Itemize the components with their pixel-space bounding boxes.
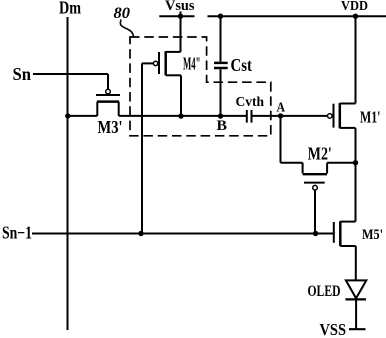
capacitor Cst bottom plate bbox=[214, 67, 228, 70]
wire M4 source down to node B bbox=[180, 75, 182, 116]
transistor M1 channel bar bbox=[339, 103, 342, 128]
svg-text:Dm: Dm bbox=[59, 0, 81, 18]
node junction dot M4gate-Sn1 bbox=[138, 231, 143, 236]
transistor M3 gate bar bbox=[96, 94, 120, 96]
transistor M1 bbox=[328, 103, 356, 128]
capacitor Cvth left plate bbox=[246, 110, 248, 123]
node junction dot Dm-M3 bbox=[65, 113, 70, 118]
wire Cst bottom bbox=[220, 69, 222, 116]
node junction dot Cst-B bbox=[218, 113, 223, 118]
wire M4 gate to Sn-1 bbox=[141, 63, 143, 233]
node junction dot M1-VDD bbox=[353, 14, 358, 19]
transistor M5 bbox=[334, 221, 356, 246]
wire M5 drain stub bbox=[340, 221, 355, 223]
capacitor Cvth right plate bbox=[251, 110, 253, 123]
svg-text:M5': M5' bbox=[362, 227, 383, 243]
wire node B line (M3 to Cvth) bbox=[119, 115, 247, 117]
transistor M4 channel bar bbox=[164, 51, 167, 75]
wire M2 right lead bbox=[327, 162, 355, 164]
wire Dm data line vertical bbox=[67, 17, 69, 330]
wire M5 source down to OLED bbox=[355, 246, 357, 280]
wire Vsus vertical feed to M4 bbox=[180, 12, 182, 52]
wire node A down to M2 bbox=[280, 116, 282, 163]
wire M3 right stub bbox=[118, 102, 120, 116]
transistor M4 gate circle bbox=[153, 61, 157, 65]
wire M1 source stub bbox=[340, 127, 356, 129]
wire VDD rail bbox=[208, 15, 386, 17]
svg-text:OLED: OLED bbox=[308, 283, 341, 300]
svg-text:80: 80 bbox=[114, 5, 131, 22]
wire M1 drain stub bbox=[340, 103, 356, 105]
svg-text:A: A bbox=[277, 100, 286, 115]
wire M4 drain stub bbox=[166, 51, 181, 53]
capacitor Cst top plate bbox=[214, 62, 228, 65]
wire M2 left stub bbox=[302, 163, 304, 174]
capacitor Cst bbox=[214, 16, 228, 116]
wire node A line (Cvth to M1 gate) bbox=[252, 115, 328, 117]
wire leader line from 80 to dashed box bbox=[120, 20, 133, 37]
wire M4 source stub bbox=[166, 74, 181, 76]
node junction dot Vsus bbox=[178, 14, 183, 19]
transistor M2 gate bar bbox=[304, 182, 325, 184]
transistor M2 bbox=[281, 163, 356, 190]
transistor M4 bbox=[142, 51, 181, 116]
node junction dot M2-trunk bbox=[353, 160, 358, 165]
wire Sn scan line bbox=[33, 73, 108, 75]
svg-text:M2': M2' bbox=[308, 144, 332, 164]
svg-text:Sn: Sn bbox=[13, 64, 32, 84]
wire node B line left segment (Dm to M3) bbox=[68, 115, 98, 117]
wire M3 left stub bbox=[96, 102, 98, 116]
svg-text:Cst: Cst bbox=[231, 55, 253, 75]
transistor M4 gate bar bbox=[158, 52, 160, 74]
transistor M5 gate bar bbox=[333, 222, 335, 243]
svg-text:M1': M1' bbox=[360, 108, 381, 127]
wire VDD down to M1 drain bbox=[355, 16, 357, 103]
wire M2 right stub bbox=[326, 163, 328, 174]
diode OLED triangle bbox=[346, 280, 366, 298]
wire OLED cathode to VSS bbox=[355, 299, 357, 329]
transistor M3 gate circle bbox=[106, 89, 111, 94]
node junction dot M2gate-Sn1 bbox=[313, 231, 318, 236]
wire trunk M1 source to M5 drain bbox=[355, 128, 357, 222]
svg-text:Sn−1: Sn−1 bbox=[2, 222, 32, 242]
wire M5 source stub bbox=[340, 245, 356, 247]
wire M2 gate to Sn-1 bbox=[314, 190, 316, 233]
transistor M5 channel bar bbox=[339, 221, 342, 246]
node junction dot Cst-VDD bbox=[218, 14, 223, 19]
svg-text:VDD: VDD bbox=[341, 0, 368, 13]
svg-text:B: B bbox=[217, 118, 228, 134]
transistor M2 channel bar bbox=[303, 173, 328, 175]
node junction dot A bbox=[278, 113, 283, 118]
svg-text:VSS: VSS bbox=[320, 320, 347, 338]
wire Vsus rail bbox=[159, 15, 194, 17]
svg-text:Cvth: Cvth bbox=[236, 94, 265, 109]
diode OLED cathode bar bbox=[345, 298, 366, 300]
wire M2 left lead bbox=[281, 162, 303, 164]
transistor M1 gate circle bbox=[328, 114, 333, 119]
wire Cst top bbox=[220, 16, 222, 61]
svg-text:M4": M4" bbox=[183, 54, 201, 74]
wire Sn corner down to M3 gate bbox=[107, 74, 109, 89]
diode OLED bbox=[345, 280, 366, 299]
dashed box 80 bbox=[130, 37, 271, 136]
transistor M3 bbox=[96, 89, 120, 116]
transistor M3 channel bar bbox=[97, 100, 119, 103]
svg-text:M3': M3' bbox=[98, 117, 123, 137]
node junction dot M4-B bbox=[178, 113, 183, 118]
transistor M1 gate bar bbox=[333, 104, 335, 128]
wire Sn-1 scan line bbox=[32, 233, 334, 235]
wire M4 gate lead bbox=[142, 62, 153, 64]
node VSS terminal bar bbox=[349, 328, 366, 330]
transistor M2 gate circle bbox=[313, 185, 318, 190]
